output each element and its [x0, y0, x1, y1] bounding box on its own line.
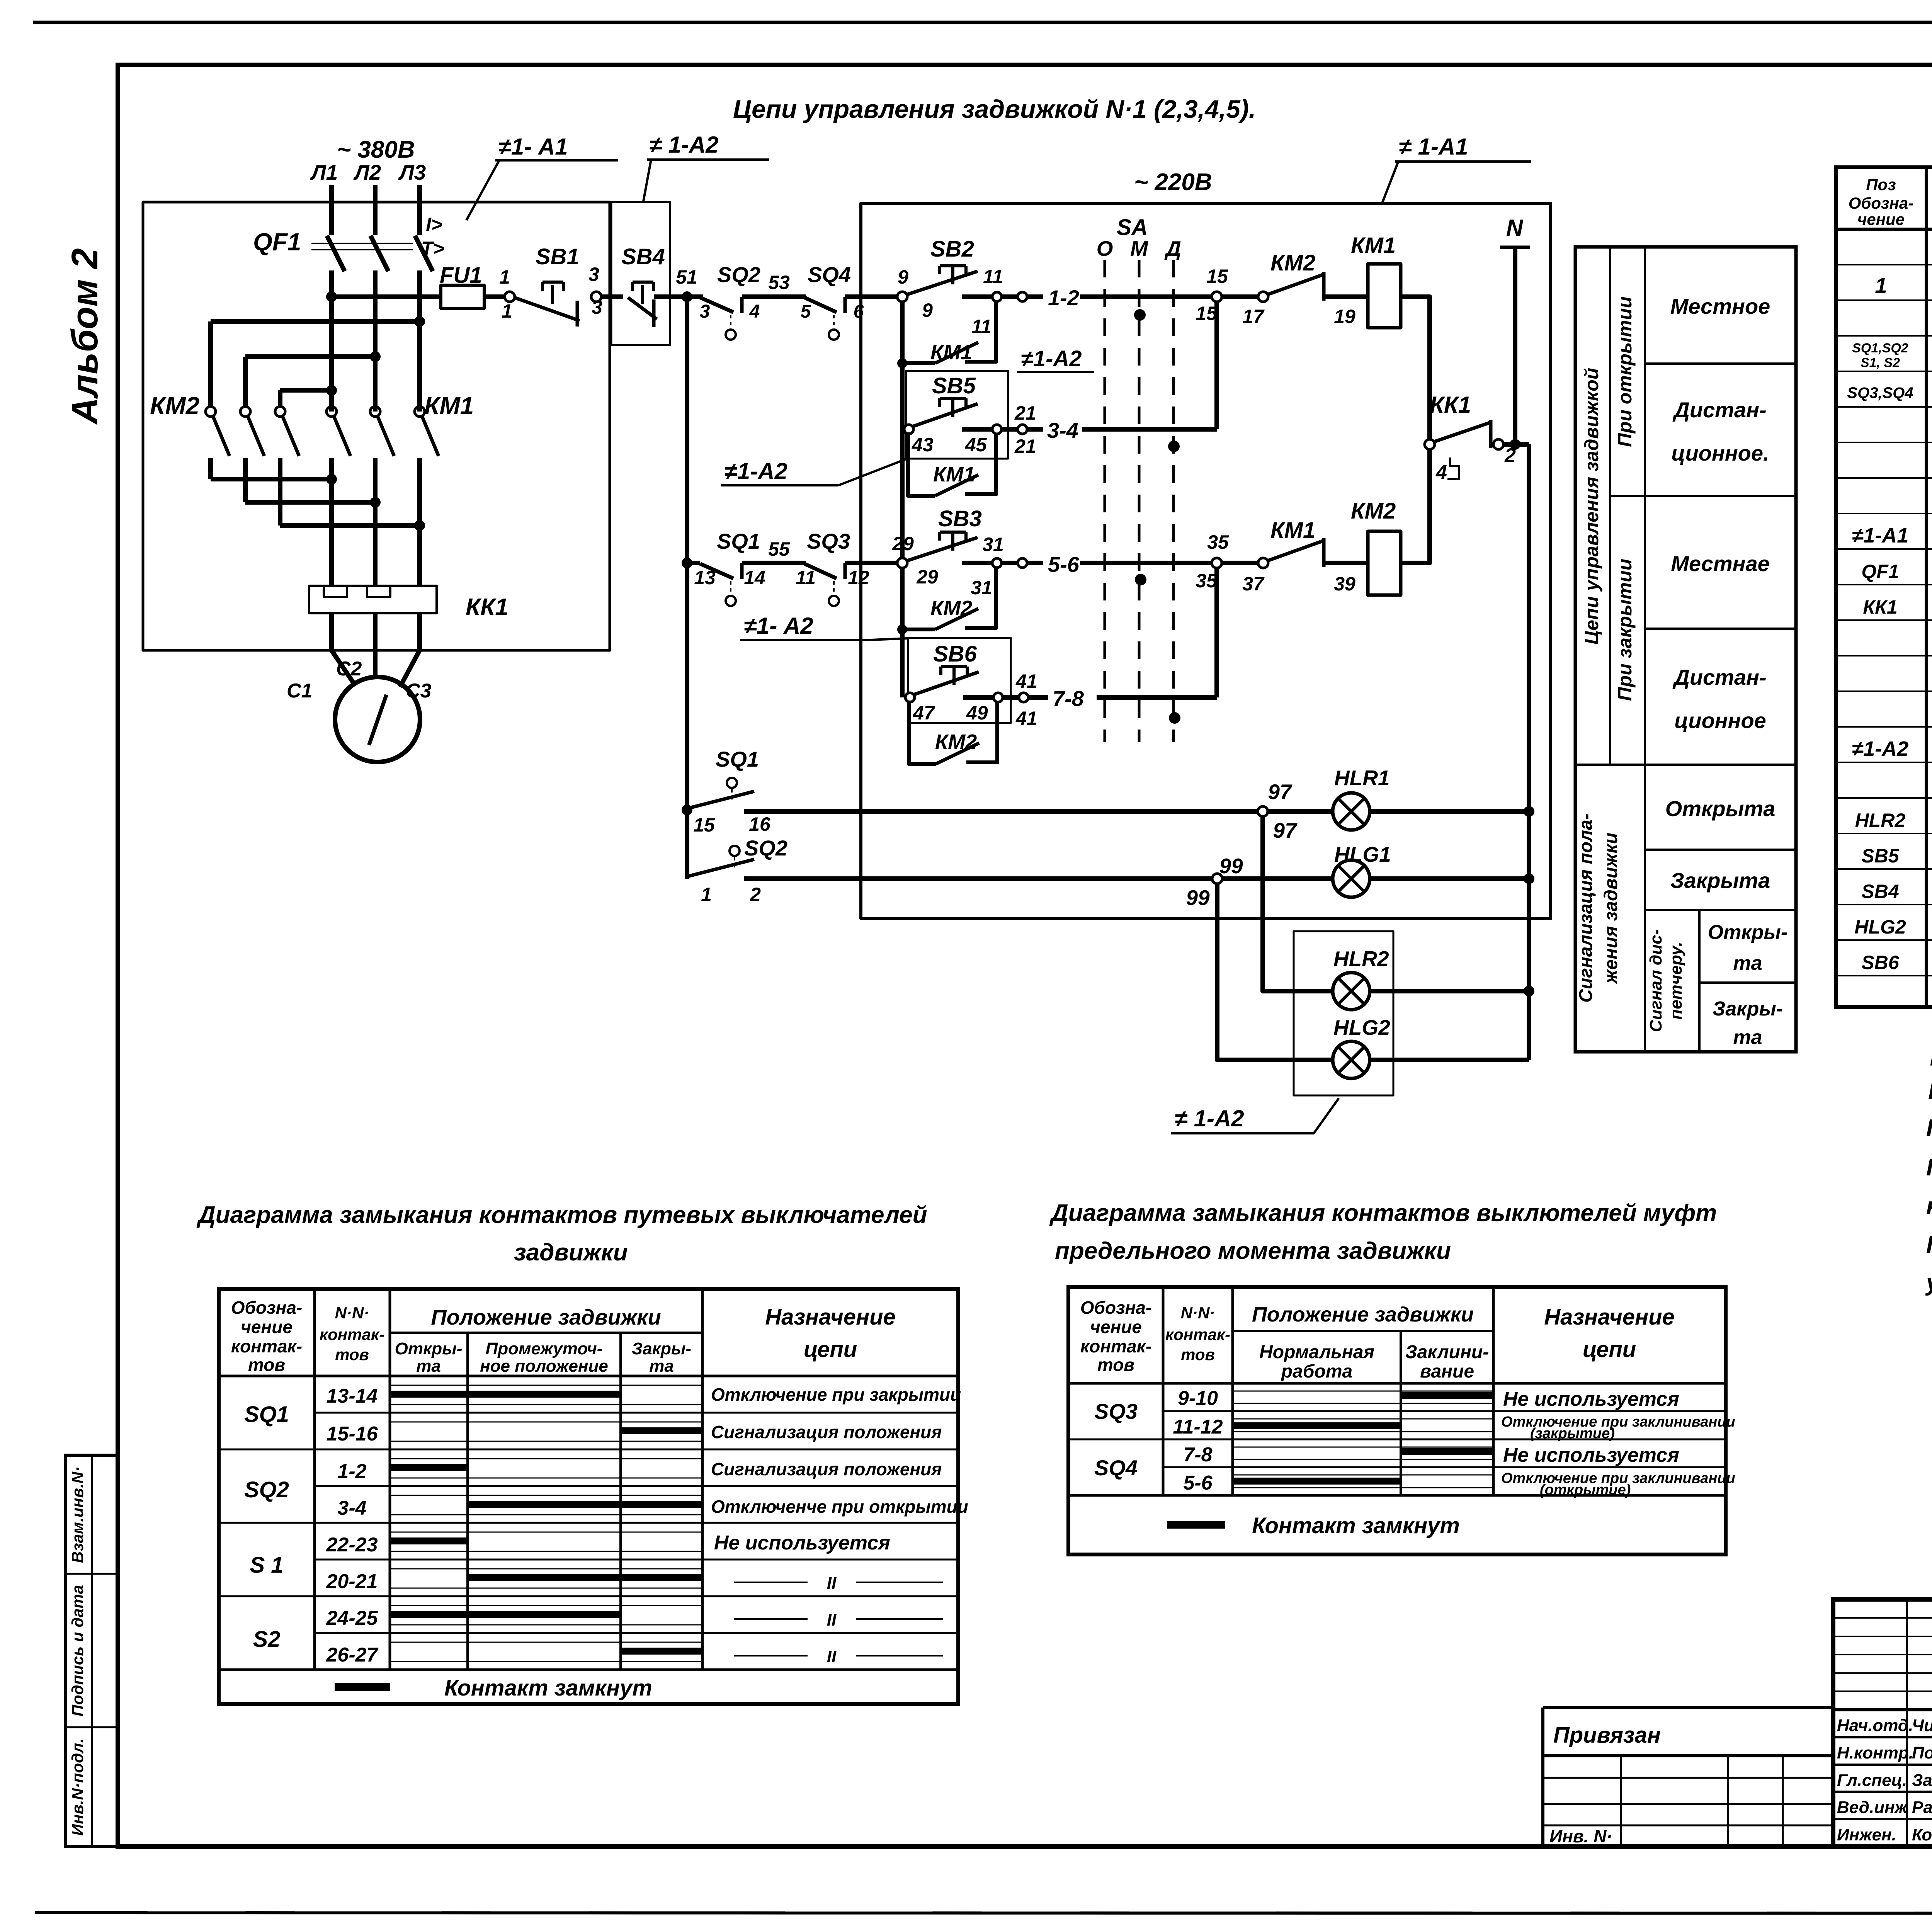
svg-text:29: 29 — [892, 533, 914, 554]
cell Дистанционное 1 — [1671, 398, 1769, 465]
contactor KM1 pole1 — [327, 406, 350, 586]
wire KM2 pole3 drop — [278, 390, 282, 406]
svg-text:Положение контактов конечных: Положение контактов конечных выключателе… — [1926, 1154, 1932, 1181]
svg-text:35: 35 — [1196, 570, 1218, 592]
svg-text:тов: тов — [1181, 1345, 1215, 1364]
junction m2 — [370, 497, 381, 508]
left diagram frame — [219, 1289, 958, 1704]
coil KM2 — [1368, 531, 1401, 595]
wire SB4 to node 51 — [654, 294, 703, 299]
button SB3 — [907, 532, 1027, 568]
svg-text:цепи: цепи — [804, 1337, 857, 1362]
row ящик РУс — [1852, 523, 1932, 547]
svg-text:Откры-: Откры- — [395, 1339, 463, 1358]
row SB4 — [1861, 878, 1932, 903]
svg-text:1-2: 1-2 — [337, 1460, 366, 1483]
row пост управления — [1852, 736, 1932, 760]
svg-text:21: 21 — [1014, 402, 1036, 424]
left diagram legend — [335, 1675, 652, 1701]
crossover feed h2 — [245, 354, 375, 359]
svg-text:Поз: Поз — [1866, 175, 1896, 194]
svg-text:тов: тов — [1097, 1355, 1134, 1375]
svg-text:≠1-А2: ≠1-А2 — [1852, 737, 1909, 760]
svg-text:контак-: контак- — [1080, 1336, 1151, 1356]
svg-text:вание: вание — [1420, 1361, 1474, 1382]
svg-text:5-6: 5-6 — [1183, 1472, 1213, 1494]
left diagram closed bars — [391, 1394, 701, 1651]
wire SQ1-SQ3 — [742, 561, 806, 565]
svg-text:чение: чение — [1857, 210, 1905, 228]
signature row инжен — [1837, 1825, 1932, 1844]
svg-text:49: 49 — [966, 702, 988, 724]
fuse FU1 — [441, 285, 484, 308]
svg-text:(закрытие): (закрытие) — [1530, 1425, 1615, 1442]
svg-text:КМ1: КМ1 — [424, 392, 474, 420]
svg-text:97: 97 — [1268, 780, 1293, 804]
svg-text:1: 1 — [499, 266, 510, 288]
svg-text:SQ3: SQ3 — [1094, 1399, 1138, 1423]
ditto marks rows 6-8 — [734, 1582, 943, 1656]
thermal contact KK1 blade — [1434, 420, 1491, 479]
svg-text:16: 16 — [749, 813, 771, 835]
button SB5 — [904, 398, 1027, 434]
svg-text:II: II — [827, 1611, 837, 1629]
motor numeral 1 — [369, 695, 386, 745]
limit switch SQ2 top — [700, 297, 742, 340]
rotated label Сигнал диспетчеру — [1646, 929, 1685, 1032]
svg-text:С1: С1 — [287, 680, 312, 702]
junction row 5-6 left — [682, 558, 692, 568]
svg-text:II: II — [827, 1574, 837, 1593]
junction m3 — [414, 520, 425, 531]
wire heater to motor L2 — [373, 613, 378, 678]
signature row н контр — [1837, 1743, 1932, 1762]
svg-text:Закры-: Закры- — [632, 1339, 691, 1358]
svg-text:II: II — [827, 1647, 837, 1666]
junction bus 99 — [1524, 873, 1534, 884]
svg-text:99: 99 — [1186, 886, 1210, 910]
svg-text:I>: I> — [426, 214, 442, 235]
svg-text:QF1: QF1 — [1861, 561, 1899, 582]
wire SQ2-SQ4 — [742, 294, 806, 299]
wire HLR2 to bus — [1370, 989, 1531, 993]
svg-text:SB6: SB6 — [933, 641, 977, 667]
node 29 junction — [897, 558, 907, 568]
contactor KM1 pole2 — [370, 406, 394, 586]
SA dot row5-6 — [1135, 574, 1146, 585]
svg-text:11: 11 — [983, 266, 1003, 287]
svg-text:Перечень элементов приведен н: Перечень элементов приведен на одну задв… — [1926, 1115, 1932, 1141]
svg-text:Под чертой дана заводская: Под чертой дана заводская маркировка цеп… — [1926, 1231, 1932, 1258]
svg-text:HLG1: HLG1 — [1334, 842, 1391, 866]
cell Открыта 2 — [1708, 921, 1788, 975]
box ящик 1-А1 — [143, 202, 610, 650]
merge wire m2 — [245, 500, 375, 505]
svg-text:HLR2: HLR2 — [1333, 947, 1389, 971]
middle diagram contact numbers — [1173, 1387, 1223, 1494]
svg-text:SQ2: SQ2 — [717, 262, 760, 287]
svg-text:43: 43 — [912, 434, 934, 456]
limit switch SQ2 signal — [688, 846, 754, 876]
svg-text:Л1: Л1 — [310, 160, 338, 184]
svg-text:SB5: SB5 — [932, 373, 976, 398]
node 2 terminal — [1493, 439, 1503, 449]
svg-text:та: та — [1733, 952, 1762, 975]
row SQ1SQ2 — [1852, 341, 1932, 370]
svg-text:~ 220В: ~ 220В — [1134, 169, 1212, 196]
wire SQ4 to node 9 — [845, 294, 897, 299]
svg-text:≠1-А2: ≠1-А2 — [724, 458, 787, 484]
node 9 junction — [897, 292, 907, 302]
merge wire m1 — [211, 477, 332, 481]
wire HLG2 to bus — [1370, 1058, 1529, 1062]
row QF1 — [1861, 558, 1932, 583]
svg-text:S2: S2 — [253, 1627, 281, 1652]
wire row 3-4 — [1027, 427, 1217, 432]
wire KM2 coil out — [1401, 444, 1430, 563]
contactor KM1 pole3 — [415, 406, 439, 586]
breaker QF1 pole 2 blade — [371, 236, 388, 271]
box SB5 enclosure — [906, 371, 1008, 459]
svg-text:Сигнал дис-: Сигнал дис- — [1646, 929, 1665, 1032]
row SQ3SQ4 — [1847, 381, 1932, 405]
svg-text:тов: тов — [248, 1355, 285, 1375]
svg-text:≠1-А1: ≠1-А1 — [1852, 524, 1909, 547]
designation ≠1-А2 mid with leader — [721, 458, 906, 485]
button SB1 actuator T — [543, 282, 563, 304]
box SB6 enclosure — [908, 638, 1011, 723]
wire HLG1 to bus — [1370, 876, 1529, 881]
svg-text:6: 6 — [854, 301, 864, 322]
wire bus to SQ1 — [687, 561, 700, 565]
svg-text:та: та — [416, 1357, 441, 1376]
button SB4 blade — [628, 298, 657, 319]
svg-text:2: 2 — [750, 884, 761, 905]
svg-text:N: N — [1506, 215, 1524, 241]
junction h2/L2 — [370, 351, 381, 362]
svg-text:Инжен.: Инжен. — [1837, 1825, 1896, 1844]
left control bus — [685, 297, 689, 879]
middle diagram ladder thin lines — [1233, 1391, 1493, 1488]
svg-text:9: 9 — [922, 299, 933, 321]
svg-text:Т>: Т> — [421, 238, 444, 259]
element table header — [1849, 175, 1932, 228]
svg-text:КМ1: КМ1 — [930, 341, 972, 364]
junction N — [1510, 439, 1520, 450]
svg-text:13-14: 13-14 — [327, 1385, 378, 1407]
button SB4 actuator T — [633, 282, 653, 304]
svg-text:С3: С3 — [406, 680, 432, 702]
svg-text:SQ2: SQ2 — [244, 1477, 289, 1502]
svg-text:15: 15 — [1206, 265, 1228, 287]
svg-text:HLR1: HLR1 — [1334, 766, 1390, 790]
svg-text:1: 1 — [502, 300, 512, 322]
svg-text:1-2: 1-2 — [1048, 286, 1079, 310]
svg-text:FU1: FU1 — [440, 263, 482, 288]
left diagram contact numbers — [326, 1385, 379, 1666]
crossover feed h3 — [280, 388, 332, 393]
selector SA dashed line M — [1138, 260, 1141, 742]
svg-text:15: 15 — [1196, 303, 1218, 324]
svg-text:SQ1: SQ1 — [244, 1402, 289, 1427]
svg-text:работа: работа — [1281, 1361, 1352, 1382]
svg-text:Отключение при закрытии: Отключение при закрытии — [711, 1384, 961, 1405]
left diagram header texts — [231, 1298, 896, 1376]
sheet bottom edge line — [37, 1913, 1932, 1913]
svg-text:Открыта: Открыта — [1665, 796, 1776, 821]
svg-text:Подпись и дата: Подпись и дата — [68, 1585, 87, 1716]
svg-text:При открытии: При открытии — [1614, 296, 1636, 447]
svg-text:14: 14 — [744, 567, 765, 588]
svg-text:1: 1 — [701, 884, 712, 905]
svg-text:КМ1: КМ1 — [1351, 233, 1396, 258]
svg-text:ное положение: ное положение — [480, 1357, 608, 1376]
svg-text:SQ1,SQ2: SQ1,SQ2 — [1852, 341, 1908, 355]
breaker QF1 pole 1 blade — [327, 236, 345, 271]
lamp HLR1 — [1268, 793, 1370, 830]
wire phase L1 below QF1 — [329, 270, 334, 412]
merge wire m3 — [280, 523, 420, 528]
svg-text:20-21: 20-21 — [326, 1570, 378, 1593]
junction SQ1 tap — [682, 804, 692, 815]
svg-text:SQ3,SQ4: SQ3,SQ4 — [1847, 384, 1913, 401]
node 35 terminal — [1212, 558, 1222, 568]
svg-text:31: 31 — [982, 534, 1004, 555]
button SB1 closed bar — [576, 301, 579, 327]
wire KM1 coil out — [1401, 297, 1430, 444]
svg-text:15: 15 — [693, 814, 715, 836]
signature row вед инж — [1837, 1798, 1932, 1817]
svg-text:4: 4 — [749, 301, 760, 322]
wire heater to motor L1 — [332, 613, 355, 686]
contact KM2 NC row1 — [1222, 272, 1368, 302]
svg-text:1: 1 — [1875, 273, 1887, 298]
wire HLR1 to bus — [1370, 809, 1529, 814]
svg-text:7-8: 7-8 — [1053, 686, 1084, 711]
svg-text:предельного момента задвижк: предельного момента задвижки — [1055, 1238, 1451, 1264]
SA dot row7-8 — [1169, 712, 1180, 724]
svg-text:С2: С2 — [336, 658, 362, 680]
left margin stamp boxes — [65, 1455, 118, 1847]
N bus top tick — [1500, 246, 1530, 249]
designation ≠1-А2 lower with leader — [740, 613, 908, 640]
wire KK1 to N bus — [1503, 442, 1529, 447]
svg-text:Нормальная: Нормальная — [1259, 1342, 1374, 1362]
svg-text:КМ1: КМ1 — [1270, 518, 1315, 543]
svg-text:ционное: ционное — [1674, 708, 1766, 733]
designation ≠1-А2 top with leader — [643, 132, 769, 201]
svg-text:Цепи управления задвижкой: Цепи управления задвижкой — [1581, 368, 1602, 645]
button SB6 — [905, 667, 1028, 702]
wire 99 drop to HLG2 — [1217, 884, 1333, 1060]
wire heater to motor L3 — [400, 613, 420, 687]
svg-text:Промежуточ-: Промежуточ- — [486, 1339, 603, 1358]
svg-text:HLG2: HLG2 — [1854, 916, 1906, 938]
row motor — [1875, 273, 1932, 298]
wire phase L1 top — [329, 185, 334, 235]
junction bus 97 — [1524, 806, 1534, 817]
svg-text:контак-: контак- — [320, 1325, 384, 1344]
svg-text:3: 3 — [592, 296, 602, 318]
designation ≠1-А1 right with leader — [1382, 134, 1531, 204]
svg-text:Дистан-: Дистан- — [1672, 398, 1766, 422]
lamp HLG2 — [1333, 1041, 1370, 1078]
aux contact KM2 under SB6 — [909, 701, 997, 764]
svg-text:21: 21 — [1014, 435, 1036, 457]
node 3 terminal — [591, 292, 601, 302]
middle diagram closed bars — [1234, 1396, 1492, 1481]
svg-text:Инв.N·подл.: Инв.N·подл. — [68, 1738, 87, 1836]
svg-text:Зарецкая: Зарецкая — [1912, 1771, 1932, 1790]
limit switch SQ3 row5 — [804, 563, 845, 606]
svg-text:тов: тов — [335, 1345, 369, 1364]
designation ≠1-А2 above SB5 — [1017, 346, 1094, 372]
svg-text:чение: чение — [1090, 1317, 1142, 1337]
node 51 junction — [682, 291, 692, 302]
lamp HLG1 — [1222, 860, 1370, 897]
svg-text:3: 3 — [588, 264, 599, 285]
svg-text:22-23: 22-23 — [326, 1534, 378, 1556]
svg-text:11-12: 11-12 — [1173, 1416, 1223, 1438]
svg-text:24-25: 24-25 — [326, 1607, 378, 1629]
selector SA dashed line O — [1104, 260, 1106, 742]
contactor KM2 pole3 — [275, 406, 299, 526]
element table frame — [1836, 167, 1932, 1007]
middle diagram legend — [1167, 1513, 1460, 1538]
svg-text:КК1: КК1 — [1430, 392, 1471, 418]
junction h3/L1 — [326, 385, 337, 396]
N bus vertical — [1513, 247, 1517, 444]
svg-text:≠1- А2: ≠1- А2 — [744, 613, 813, 639]
vertical link 15 to row 3-4 — [1214, 302, 1219, 429]
wire row 5-6 — [1027, 561, 1212, 565]
limit switch SQ1 row5 — [700, 563, 742, 606]
svg-text:петчеру.: петчеру. — [1667, 942, 1685, 1019]
svg-text:≠1-А2: ≠1-А2 — [1021, 346, 1082, 371]
svg-text:М: М — [1130, 236, 1148, 260]
svg-text:SB3: SB3 — [938, 506, 982, 531]
wire row 97 — [744, 809, 1258, 814]
svg-text:HLR2: HLR2 — [1855, 810, 1906, 831]
svg-text:чение: чение — [241, 1317, 293, 1337]
svg-text:39: 39 — [1334, 573, 1355, 595]
selector SA dashed line Д — [1172, 260, 1175, 742]
svg-text:Обозна-: Обозна- — [231, 1298, 303, 1318]
svg-text:HLG2: HLG2 — [1333, 1015, 1390, 1039]
wire phase L2 top — [373, 185, 378, 235]
svg-text:S1, S2: S1, S2 — [1861, 355, 1900, 370]
thermal relay KK1 heater box — [309, 586, 437, 613]
svg-text:3-4: 3-4 — [337, 1497, 366, 1519]
contact KM1 NC row5 — [1222, 538, 1368, 568]
svg-text:SQ3: SQ3 — [807, 529, 850, 553]
limit switch SQ1 signal — [688, 778, 754, 808]
svg-text:Чижиков: Чижиков — [1912, 1716, 1932, 1735]
svg-text:КМ2: КМ2 — [1351, 498, 1396, 524]
breaker QF1 pole 3 blade — [415, 236, 433, 271]
junction 97 — [1258, 806, 1268, 816]
svg-text:Гл.спец.: Гл.спец. — [1837, 1771, 1907, 1790]
svg-text:QF1: QF1 — [253, 228, 301, 256]
svg-text:SB2: SB2 — [930, 236, 974, 262]
left diagram contact group labels — [244, 1402, 289, 1652]
svg-text:Привязан: Привязан — [1553, 1723, 1661, 1748]
control box 220V — [861, 203, 1551, 918]
svg-text:КМ2: КМ2 — [150, 392, 199, 420]
svg-text:КМ2: КМ2 — [1270, 250, 1315, 276]
wire FU1 to SB1 — [484, 294, 505, 299]
svg-text:Н.контр.: Н.контр. — [1837, 1743, 1913, 1762]
svg-text:15-16: 15-16 — [327, 1423, 378, 1445]
svg-text:Д: Д — [1164, 236, 1181, 260]
wire SB1 to SB4 — [601, 294, 623, 299]
signature row гл спец — [1837, 1771, 1932, 1790]
svg-text:51: 51 — [676, 266, 697, 288]
svg-text:53: 53 — [768, 272, 790, 293]
middle diagram group labels — [1094, 1399, 1138, 1480]
svg-text:Козлов: Козлов — [1912, 1825, 1932, 1844]
wire phase L3 top — [417, 185, 422, 235]
svg-text:Сигнализация положения: Сигнализация положения — [711, 1422, 942, 1442]
signature rows — [1833, 1737, 1932, 1819]
crossover feed h1 — [211, 319, 420, 324]
svg-text:≠1- А1: ≠1- А1 — [498, 134, 568, 160]
svg-text:≠ 1-А1: ≠ 1-А1 — [1399, 134, 1468, 160]
svg-text:35: 35 — [1207, 531, 1229, 553]
svg-text:Нач.отд.: Нач.отд. — [1837, 1716, 1913, 1735]
aux contact KM1 under SB2 — [897, 302, 996, 368]
limit switch SQ4 top — [804, 297, 845, 340]
svg-text:Местное: Местное — [1670, 294, 1770, 318]
svg-text:Контакт замкнут: Контакт замкнут — [1252, 1513, 1460, 1538]
svg-text:55: 55 — [768, 538, 790, 560]
middle diagram purpose texts — [1501, 1388, 1735, 1498]
left diagram ladder thin lines — [390, 1385, 702, 1662]
junction bus HLR2 — [1524, 986, 1534, 997]
svg-text:Взам.инв.N·: Взам.инв.N· — [68, 1466, 87, 1563]
wire phase L3 below QF1 — [417, 270, 422, 412]
svg-text:47: 47 — [913, 702, 935, 724]
box SB4 enclosure — [611, 202, 670, 345]
junction m1 — [326, 474, 337, 485]
svg-text:Альбом 2: Альбом 2 — [64, 248, 105, 425]
extension привязан table — [1543, 1708, 1833, 1847]
aux contact KM2 under SB3 — [897, 568, 996, 634]
svg-text:Заклини-: Заклини- — [1405, 1342, 1489, 1362]
svg-text:Положение задвижки: Положение задвижки — [431, 1305, 661, 1329]
wire phase L2 below QF1 — [373, 270, 378, 412]
SA dot row3-4 — [1168, 440, 1180, 452]
svg-text:N·1, для задвижек N·2,3,4,: N·1, для задвижек N·2,3,4,5 схемы аналог… — [1928, 1078, 1932, 1105]
svg-text:управления.: управления. — [1925, 1269, 1932, 1296]
svg-text:Радюшкин: Радюшкин — [1912, 1798, 1932, 1817]
svg-text:КК1: КК1 — [466, 594, 509, 621]
svg-text:Не используется: Не используется — [714, 1532, 890, 1554]
svg-text:контак-: контак- — [231, 1336, 302, 1356]
svg-text:SB4: SB4 — [621, 244, 665, 269]
designation ≠1-А2 lamps with leader — [1171, 1098, 1339, 1133]
KK1 heater notch 2 — [367, 586, 390, 597]
aux contact KM1 under SB5 — [908, 432, 996, 496]
svg-text:КМ2: КМ2 — [930, 597, 972, 620]
svg-text:SQ1: SQ1 — [717, 529, 760, 553]
svg-text:Обозна-: Обозна- — [1080, 1298, 1152, 1318]
svg-text:Закры-: Закры- — [1713, 998, 1783, 1020]
svg-text:SQ2: SQ2 — [744, 836, 787, 860]
svg-text:5-6: 5-6 — [1048, 552, 1080, 577]
stamp thin rows — [1833, 1618, 1932, 1691]
svg-text:При закрытии: При закрытии — [1614, 559, 1636, 701]
